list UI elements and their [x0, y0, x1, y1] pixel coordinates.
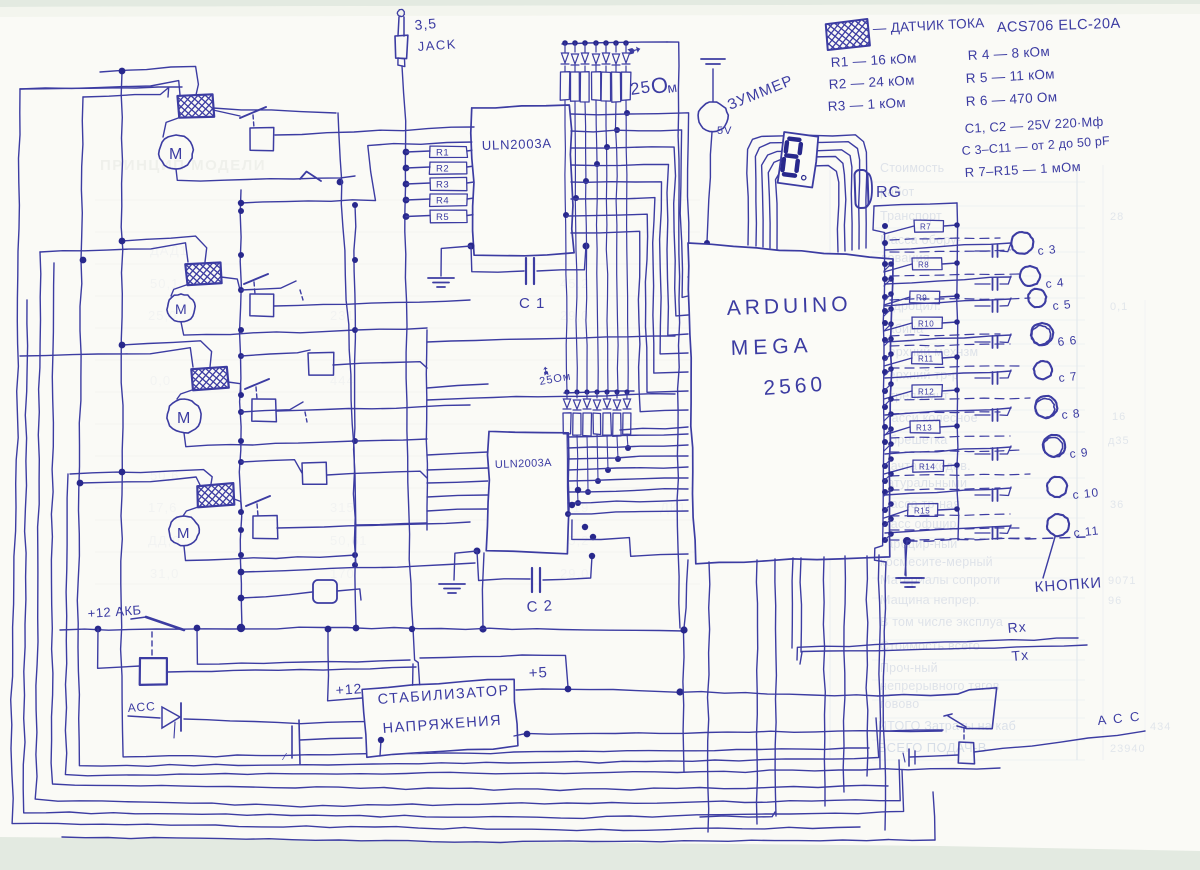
- IC U1 ULN2003A: [470, 105, 574, 257]
- LED D11 with 25 Ohm resistor: [594, 389, 599, 394]
- svg-text:R3: R3: [436, 180, 449, 191]
- svg-text:c 3: c 3: [1037, 242, 1057, 258]
- svg-text:Стоимость: Стоимость: [880, 161, 944, 175]
- motor M4: [169, 516, 200, 546]
- svg-text:R7: R7: [920, 223, 931, 232]
- motor M2: [167, 294, 195, 322]
- svg-text:ДД,0: ДД,0: [148, 533, 180, 548]
- resistor R11: [912, 352, 943, 365]
- svg-text:Мащина непрер.: Мащина непрер.: [880, 593, 980, 607]
- ACC ignition switch relay: [878, 688, 997, 729]
- MCU module Arduino Mega 2560: [688, 243, 893, 564]
- long wires to ULN2 inputs: [426, 330, 427, 530]
- current sensor + motor M1 unit: [100, 66, 198, 95]
- push button c3 with capacitor C3: [1011, 232, 1033, 254]
- svg-text:говово: говово: [880, 697, 919, 711]
- svg-text:Tx: Tx: [1011, 647, 1030, 664]
- svg-text:Гарбцир-ный: Гарбцир-ный: [880, 537, 957, 551]
- svg-text:R12: R12: [918, 388, 934, 397]
- current sensor CS2 (hatched): [185, 262, 222, 286]
- current sensor CS1 (hatched): [177, 94, 214, 119]
- svg-text:Проч-ный: Проч-ный: [880, 661, 938, 675]
- svg-text:RG: RG: [876, 184, 902, 201]
- svg-text:м: м: [666, 79, 679, 96]
- wire left nested bus loops: [20, 87, 182, 89]
- svg-text:R9: R9: [916, 294, 927, 303]
- MCU bottom wires + ground: [903, 537, 911, 545]
- push buttons network R7-R15, C3-C11: [874, 203, 957, 206]
- LED bank D8-D14 with 25 Ohm resistors: [564, 391, 634, 393]
- svg-text:R13: R13: [916, 424, 932, 433]
- wire switch to U1 input: [275, 127, 474, 135]
- current sensor + motor M2 unit: [122, 236, 207, 262]
- push button c11 with capacitor C11: [1047, 514, 1069, 536]
- svg-text:434: 434: [1150, 721, 1171, 733]
- svg-text:Материалы сопроти: Материалы сопроти: [880, 573, 1000, 587]
- svg-text:C 1: C 1: [519, 295, 545, 312]
- svg-text:M: M: [175, 301, 188, 317]
- svg-text:+5: +5: [528, 664, 548, 682]
- current sensor + motor M4 unit: [70, 470, 212, 484]
- svg-text:R5: R5: [436, 212, 449, 223]
- resistor R9: [910, 291, 940, 304]
- resistor R7: [914, 220, 944, 232]
- LED D6 with 25 Ohm resistor: [613, 40, 619, 46]
- LED D14 with 25 Ohm resistor: [624, 389, 629, 394]
- svg-text:R8: R8: [918, 261, 929, 270]
- LED bank D1-D7 with 25 Ohm resistors: [562, 42, 667, 44]
- svg-text:16: 16: [1112, 411, 1126, 423]
- LED D5 with 25 Ohm resistor: [603, 40, 609, 46]
- capacitor C1 + ground: [468, 243, 475, 250]
- svg-text:25,0: 25,0: [148, 308, 177, 323]
- push button c4 with capacitor C4: [1020, 266, 1040, 286]
- svg-text:R15: R15: [914, 507, 930, 516]
- LED D7 with 25 Ohm resistor: [623, 40, 629, 46]
- svg-text:31,0: 31,0: [150, 566, 179, 581]
- push button c5 with capacitor C5: [1028, 289, 1046, 307]
- resistor R10: [912, 317, 942, 329]
- svg-text:➳: ➳: [539, 364, 553, 376]
- svg-text:R11: R11: [918, 355, 934, 364]
- resistor R12: [912, 385, 942, 398]
- svg-text:Rx: Rx: [1007, 618, 1027, 636]
- svg-text:АСС: АСС: [127, 699, 156, 715]
- motor M3: [167, 399, 201, 433]
- relay contact switches column 2: [300, 172, 321, 182]
- svg-text:c 8: c 8: [1061, 406, 1081, 422]
- svg-text:c 9: c 9: [1069, 445, 1089, 461]
- svg-text:17,6: 17,6: [148, 500, 177, 515]
- svg-text:96: 96: [1108, 595, 1122, 607]
- svg-text:23940: 23940: [1110, 743, 1146, 755]
- LED D12 with 25 Ohm resistor: [604, 389, 609, 394]
- LED D2 with 25 Ohm resistor: [572, 40, 578, 46]
- wire LED1 columns down: [565, 100, 567, 392]
- svg-text:5V: 5V: [717, 125, 732, 137]
- resistor R2: [403, 165, 410, 172]
- svg-text:315: 315: [330, 500, 355, 515]
- wire vertical buses: [239, 190, 242, 628]
- wire LED2 columns: [567, 434, 568, 514]
- resistor network RG: [854, 170, 868, 208]
- svg-text:ULN2003A: ULN2003A: [482, 136, 552, 153]
- push button c7 with capacitor C7: [1034, 361, 1053, 379]
- LED D9 with 25 Ohm resistor: [574, 389, 579, 394]
- LED D8 with 25 Ohm resistor: [564, 389, 569, 394]
- wire bundle U1 outputs to MCU: [571, 113, 689, 278]
- svg-text:0,0: 0,0: [150, 373, 171, 388]
- push button c8 with capacitor C8: [1035, 396, 1057, 418]
- svg-text:ARDUINO: ARDUINO: [726, 293, 852, 320]
- LED D4 with 25 Ohm resistor: [593, 40, 599, 46]
- svg-text:2560: 2560: [763, 373, 827, 400]
- wires into MCU left edge: [620, 427, 688, 430]
- capacitor C2 + ground: [474, 548, 481, 555]
- svg-text:c 10: c 10: [1072, 485, 1100, 502]
- motor M1: [159, 135, 194, 169]
- svg-text:JACK: JACK: [417, 36, 457, 54]
- svg-text:36: 36: [1110, 499, 1124, 511]
- svg-text:50,61: 50,61: [330, 533, 368, 548]
- svg-text:25: 25: [629, 77, 652, 99]
- svg-text:3,5: 3,5: [414, 15, 438, 33]
- svg-text:космесите-мерный: космесите-мерный: [880, 555, 993, 569]
- wire U2 outputs to MCU: [568, 434, 688, 437]
- 3.5mm jack J1: [397, 9, 404, 16]
- current sensor + motor M3 unit: [122, 341, 212, 367]
- svg-text:9071: 9071: [1108, 575, 1136, 587]
- LED D3 with 25 Ohm resistor: [582, 40, 588, 46]
- current sensor CS3 (hatched): [191, 367, 228, 390]
- svg-text:c 5: c 5: [1052, 297, 1072, 313]
- svg-text:c 7: c 7: [1058, 369, 1078, 385]
- svg-text:M: M: [177, 410, 191, 427]
- resistor R8: [912, 258, 942, 270]
- resistor R13: [910, 420, 940, 433]
- push button 66 with capacitor C6: [1031, 323, 1053, 345]
- svg-text:R4: R4: [436, 196, 449, 207]
- svg-text:В том числе эксплуа: В том числе эксплуа: [880, 615, 1003, 629]
- svg-text:ДК1: ДК1: [660, 500, 687, 515]
- push button c9 with capacitor C9: [1043, 435, 1065, 457]
- svg-text:M: M: [169, 146, 183, 163]
- svg-text:непрерывного тягов: непрерывного тягов: [880, 679, 1000, 693]
- svg-text:c 4: c 4: [1045, 275, 1065, 291]
- legend notes: [825, 19, 870, 50]
- svg-text:231: 231: [330, 308, 355, 323]
- svg-text:6 6: 6 6: [1057, 333, 1078, 349]
- svg-text:R1: R1: [436, 148, 449, 159]
- svg-text:R14: R14: [919, 463, 935, 472]
- buzzer 5V: [701, 58, 725, 60]
- resistor R5: [403, 213, 410, 220]
- svg-text:28: 28: [1110, 211, 1124, 223]
- voltage stabilizer: [362, 678, 519, 758]
- svg-text:ULN2003A: ULN2003A: [495, 457, 553, 471]
- svg-text:45,2: 45,2: [560, 276, 589, 291]
- resistor R4: [403, 197, 410, 204]
- junction dots left buses: [238, 208, 244, 214]
- resistor R15: [908, 504, 938, 517]
- resistor R14: [913, 460, 944, 472]
- resistor R1: [403, 149, 410, 156]
- wire right bottom vertical: [883, 562, 886, 830]
- svg-text:MEGA: MEGA: [730, 334, 813, 360]
- LED D10 with 25 Ohm resistor: [584, 389, 589, 394]
- 7-segment display: [747, 135, 867, 248]
- svg-text:+12: +12: [335, 680, 363, 698]
- svg-text:R2: R2: [436, 164, 449, 175]
- LED D13 with 25 Ohm resistor: [614, 389, 619, 394]
- svg-text:0,1: 0,1: [1110, 301, 1128, 313]
- MCU right edge pins: [888, 261, 894, 267]
- current sensor CS4 (hatched): [196, 483, 234, 507]
- svg-text:C 2: C 2: [526, 597, 553, 616]
- IC U2 ULN2003A: [486, 431, 571, 554]
- LED D1 with 25 Ohm resistor: [562, 40, 568, 46]
- svg-text:29,0: 29,0: [560, 308, 589, 323]
- svg-text:R10: R10: [918, 320, 934, 329]
- svg-text:M: M: [177, 525, 191, 542]
- push button c10 with capacitor C10: [1047, 477, 1067, 497]
- resistor R3: [403, 181, 410, 188]
- svg-text:д35: д35: [1108, 435, 1130, 447]
